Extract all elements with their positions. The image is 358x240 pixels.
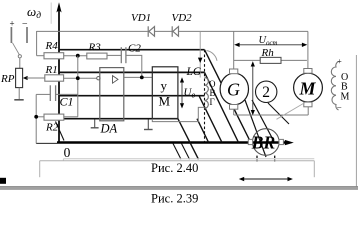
svg-text:М: М [341, 92, 350, 103]
BR brush left [248, 139, 252, 144]
wire RP bottom [18, 88, 20, 100]
wire bus to R4 [37, 55, 44, 57]
fan diagonal F2 [205, 72, 239, 142]
ground 2 [144, 119, 153, 129]
BR brush right [279, 139, 283, 144]
UM bottom wire [152, 107, 204, 121]
vertical feedback wire x78 [77, 56, 79, 117]
load line Db [252, 100, 274, 142]
switch contact circle [18, 55, 21, 58]
node dot top [76, 54, 80, 58]
characteristic line 1 [59, 49, 205, 51]
supply contact bar left [10, 27, 12, 43]
load line Da [245, 100, 266, 157]
wire R1 to opamp [64, 77, 98, 79]
svg-text:LG: LG [186, 66, 202, 78]
characteristic line 6 [59, 118, 178, 120]
wire to R2 left [36, 116, 44, 118]
C1 R2 loop: wire to C1 [36, 93, 50, 95]
svg-text:VD1: VD1 [131, 12, 151, 24]
wire switch to RP [19, 58, 21, 68]
hatch stub S1 [173, 144, 181, 160]
G brush bottom [230, 105, 238, 110]
svg-text:BR: BR [251, 133, 275, 153]
resistor R1 [45, 75, 64, 81]
fan diagonal F1 [205, 50, 251, 142]
diode VD1 [148, 26, 154, 37]
M bottom wire [307, 107, 309, 115]
bus tap wire with arrow [199, 31, 201, 77]
coupling circle 2 [256, 81, 277, 102]
wire R2 right [64, 116, 78, 118]
characteristic line 4 [59, 95, 205, 97]
separator band [0, 187, 358, 190]
fan diagonal F6 [178, 119, 199, 160]
op-amp triangle [113, 76, 119, 84]
svg-text:VD2: VD2 [172, 12, 193, 24]
wire R3 to C2 [107, 54, 121, 56]
selection handle [0, 178, 6, 184]
Uost dimension [234, 43, 307, 47]
svg-text:DA: DA [100, 122, 118, 136]
left loop vertical [35, 94, 37, 143]
opamp output wire [124, 76, 153, 78]
small gray arc [207, 51, 218, 61]
svg-text:0: 0 [64, 145, 71, 160]
svg-text:2: 2 [262, 84, 270, 101]
bottom dimension arrow [239, 177, 293, 181]
switch lever [13, 43, 20, 55]
RP ground bar [14, 99, 23, 101]
generator G wire top [233, 31, 235, 69]
output node dot [140, 76, 144, 80]
frame stub [62, 159, 64, 161]
M axis (horizontal) with arrow [36, 140, 294, 145]
Rh wire [234, 59, 307, 61]
light frame remnant top-left [50, 3, 52, 24]
BR bottom dash left [256, 156, 258, 162]
svg-text:Г: Г [210, 97, 215, 107]
RP wiper arrow [23, 76, 28, 80]
capacitor C2 [121, 47, 126, 63]
hatch stub S2 [182, 144, 190, 160]
svg-text:R4: R4 [45, 40, 59, 52]
input open circle [97, 77, 100, 80]
svg-text:М: М [159, 94, 171, 109]
characteristic line 2 [59, 71, 205, 73]
svg-text:C2: C2 [128, 43, 141, 55]
G bottom wire [233, 109, 235, 115]
right frame line [355, 55, 357, 187]
frame right leg [313, 161, 315, 178]
svg-text:R3: R3 [88, 42, 102, 54]
svg-text:G: G [227, 79, 240, 99]
M brush top [304, 69, 312, 74]
motor M wire top [307, 31, 309, 69]
motor M circle [294, 73, 323, 102]
M brush bottom [304, 102, 312, 107]
ground 1 [91, 119, 99, 127]
supply contact bar right [26, 27, 28, 43]
svg-text:Рис. 2.40: Рис. 2.40 [151, 161, 198, 175]
fan diagonal F4 [197, 119, 209, 143]
svg-text:M: M [299, 79, 317, 99]
G brush top [230, 69, 238, 74]
wire C1 to x78 [56, 93, 78, 95]
wire RP wiper to R1 [27, 77, 45, 79]
potentiometer RP [16, 68, 23, 87]
capacitor C1 [50, 85, 55, 101]
figure 2.40 frame bottom thin [63, 158, 314, 160]
rheostat Rh [260, 57, 281, 63]
svg-text:R1: R1 [45, 64, 58, 76]
generator G circle [220, 73, 248, 105]
bottom bus [234, 114, 309, 116]
svg-text:RP: RP [0, 73, 15, 85]
shaft line M to BR [277, 103, 305, 120]
figure 2.40 frame bottom [40, 160, 315, 162]
Uv dimension [180, 77, 184, 108]
load line Dc [268, 103, 289, 124]
top bus wire [37, 31, 308, 56]
svg-text:у: у [161, 78, 168, 93]
fan diagonal F3 [199, 96, 222, 143]
svg-text:C1: C1 [60, 95, 74, 109]
svg-text:+: + [337, 57, 342, 66]
BR bottom dash right [274, 156, 276, 162]
LG coil [205, 78, 209, 109]
resistor R3 [87, 53, 107, 59]
dashed boundary line [204, 50, 206, 142]
hatch stub S0 [56, 122, 65, 141]
svg-text:–: – [22, 18, 28, 28]
svg-text:Rh: Rh [261, 47, 275, 59]
op-amp block DA [100, 68, 124, 121]
vertical dimension arrow [251, 61, 255, 115]
svg-text:R2: R2 [45, 122, 59, 134]
frame left leg [39, 161, 41, 178]
wire R4 to node [64, 55, 87, 57]
resistor R2 [44, 114, 64, 120]
input node dot [76, 76, 80, 80]
amplifier block UM [152, 67, 178, 119]
diode VD2 [172, 26, 178, 37]
omega axis (vertical) [56, 2, 61, 143]
wire C2 right [126, 55, 142, 77]
OVM field winding [331, 62, 338, 111]
R2 node dot [34, 115, 38, 119]
svg-text:Рис. 2.39: Рис. 2.39 [151, 192, 198, 206]
tachogenerator BR circle [252, 129, 279, 156]
resistor R4 [44, 53, 64, 59]
